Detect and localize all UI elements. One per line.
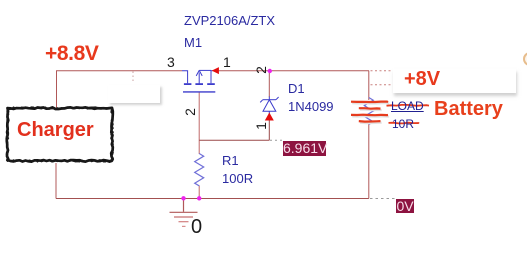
wire: top horizontal to M1 pin 3 <box>56 70 182 72</box>
junction node dot: R1 bottom junction <box>197 196 201 200</box>
annotation Battery <box>434 98 503 121</box>
strike-through over LOAD <box>387 104 430 107</box>
pin 3 label <box>167 54 175 70</box>
wire: D1 cathode up to node <box>268 71 270 97</box>
wire: charger top vertical (+8.8V net) <box>56 71 58 108</box>
wire: right vertical down to battery top <box>368 71 370 100</box>
charger block text <box>17 119 94 142</box>
struck-out label LOAD <box>391 99 424 113</box>
zener diode D1 (1N4099) <box>260 97 278 119</box>
value 100R <box>222 171 253 186</box>
resistor LOAD 10R zigzag (behind battery sketch) <box>364 98 373 125</box>
dotted probe leader to 0V label <box>370 198 395 200</box>
probe value 6.961V <box>283 141 326 156</box>
designator M1 <box>184 35 202 50</box>
transistor M1 (ZVP2106A p-MOSFET) <box>182 70 216 92</box>
pin 2 label (D1 top, rotated) <box>253 66 269 74</box>
net label +8V <box>404 68 440 91</box>
cursor blob top right <box>523 52 527 66</box>
net label +8.8V <box>45 42 98 66</box>
current arrow at M1 pin 1 <box>212 67 219 74</box>
wire: M1 pin 1 to right vertical <box>215 70 370 72</box>
dotted hidden wire upper (under +8V callout) <box>371 70 394 72</box>
ground name 0 <box>191 216 202 239</box>
white callout box +8V <box>393 69 516 93</box>
battery sketch: cell plate short 2 <box>359 120 381 123</box>
struck-out value 10R <box>392 117 414 131</box>
wire: horizontal from M1 pin2 branch to D1 anode <box>199 139 269 141</box>
battery sketch: cell plate long 2 <box>351 114 388 117</box>
pin 1 label <box>223 54 231 70</box>
ground symbol 0 <box>170 199 198 227</box>
probe value 0V <box>396 199 414 213</box>
junction node dot: D1 top node <box>268 69 272 73</box>
wire: D1 anode vertical <box>268 118 270 140</box>
designator R1 <box>222 153 239 168</box>
battery sketch: cell plate long 1 <box>351 100 388 103</box>
current arrow at D1 anode <box>265 113 274 121</box>
pin 2 label (M1, rotated) <box>182 108 198 116</box>
wire: M1 pin 2 vertical down to R1 <box>198 93 200 155</box>
part number 1N4099 <box>288 99 334 114</box>
dotted hidden wire lower (under +8V callout) <box>371 84 394 86</box>
strike-through over 10R <box>389 122 420 125</box>
white callout box over V1 label <box>108 85 160 103</box>
pin 1 label (D1 bottom, rotated) <box>253 122 269 130</box>
battery sketch: cell plate short 1 <box>359 107 381 110</box>
wire: battery bottom down to 0V rail <box>368 124 370 199</box>
designator D1 <box>288 81 305 96</box>
wire: bottom 0V rail horizontal <box>56 198 369 200</box>
dotted probe leader to 6.961V label <box>270 139 283 141</box>
junction node dot: ground junction <box>181 196 185 200</box>
dotted stub below top wire near charger callout <box>132 72 134 83</box>
battery sketch: grey shadows <box>352 103 389 123</box>
wire: R1 bottom to 0V rail <box>198 186 200 199</box>
part number ZVP2106A/ZTX <box>184 13 275 28</box>
resistor R1 100R zigzag <box>195 154 204 186</box>
wire: charger bottom vertical <box>55 163 57 199</box>
